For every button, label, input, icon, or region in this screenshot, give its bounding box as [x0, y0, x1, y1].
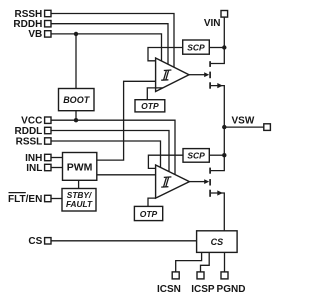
svg-text:PGND: PGND: [217, 284, 246, 295]
wire BOOT to VCC: [75, 111, 77, 121]
wire CS to PGND: [224, 252, 226, 272]
pin RSSH: [15, 9, 51, 20]
block SCP high-side: [183, 40, 210, 54]
junction VB/BOOT: [74, 32, 78, 36]
svg-text:SCP: SCP: [187, 43, 205, 53]
svg-text:VB: VB: [28, 29, 42, 40]
pin RDDL: [15, 126, 51, 137]
svg-text:SCP: SCP: [187, 151, 205, 161]
driver symbol U1: [161, 70, 171, 80]
pin INH: [25, 153, 51, 164]
svg-text:VSW: VSW: [232, 116, 255, 127]
svg-text:RDDL: RDDL: [15, 126, 43, 137]
wire OTP to high-side driver: [147, 88, 163, 100]
svg-text:FLT/EN: FLT/EN: [8, 194, 42, 205]
wire CS pin to CS block: [51, 240, 196, 242]
svg-text:VIN: VIN: [204, 18, 221, 29]
block BOOT: [59, 89, 95, 111]
wire RSSH to high-side driver: [51, 14, 174, 68]
pin RDDH: [13, 19, 51, 30]
svg-text:BOOT: BOOT: [63, 95, 91, 105]
svg-text:FAULT: FAULT: [66, 199, 93, 209]
wire INH to PWM: [51, 157, 62, 159]
block STBY/FAULT: [62, 189, 96, 212]
op-amp U1 high-side gate driver: [156, 58, 189, 92]
pin ICSP: [191, 272, 215, 295]
op-amp U2 low-side gate driver: [156, 165, 190, 198]
junction SCP/VIN: [222, 45, 226, 49]
block OTP high-side: [135, 100, 165, 112]
pin VCC: [21, 116, 51, 127]
pin FLT/EN: [8, 193, 51, 205]
wire SCP to VSW rail: [209, 154, 224, 156]
arrow Q1 gate: [204, 72, 209, 77]
wire PWM to low-side driver: [97, 174, 156, 176]
wire Q1 source to VSW: [211, 86, 224, 128]
wire Q2 source to CS: [211, 193, 224, 231]
svg-text:RSSL: RSSL: [16, 136, 43, 147]
wire PWM to STBY/FAULT: [78, 180, 80, 188]
wire SCP to high-side driver: [148, 48, 183, 61]
wire U1 to Q1 gate: [189, 74, 205, 76]
svg-text:OTP: OTP: [140, 209, 158, 219]
block CS current sense: [197, 231, 238, 253]
net VSW rail to Q2 drain: [211, 127, 225, 171]
arrow Q2 source: [217, 190, 223, 195]
arrow Q1 source: [217, 83, 223, 88]
pin CS: [28, 236, 51, 247]
junction VSW: [222, 125, 226, 129]
wire VB to BOOT: [75, 34, 77, 89]
svg-text:INL: INL: [26, 163, 42, 174]
pin VIN: [204, 11, 228, 30]
wire SCP to VIN rail: [209, 47, 224, 49]
svg-text:ICSN: ICSN: [157, 284, 181, 295]
svg-text:PWM: PWM: [67, 162, 93, 174]
wire VB to high-side driver: [51, 34, 161, 61]
net VIN rail to Q1 drain: [211, 17, 225, 63]
pin INL: [26, 163, 51, 174]
pin VB: [28, 29, 51, 40]
pin PGND: [217, 272, 246, 295]
wire RSSL to low-side driver: [51, 141, 160, 167]
wire PWM to high-side driver: [97, 81, 156, 160]
junction BOOT/VCC: [74, 118, 78, 122]
junction SCP/VSW: [222, 153, 226, 157]
wire VSW: [224, 126, 263, 128]
wire INL to PWM: [51, 167, 62, 169]
wire RDDL to low-side driver: [51, 131, 169, 172]
wire OTP to low-side driver: [148, 198, 156, 206]
wire U2 to Q2 gate: [189, 181, 205, 183]
svg-text:OTP: OTP: [141, 101, 159, 111]
pin RSSL: [16, 136, 51, 147]
wire RDDH to high-side driver: [51, 24, 168, 64]
arrow Q2 gate: [204, 179, 209, 184]
pin ICSN: [157, 272, 181, 295]
block OTP low-side: [134, 206, 162, 220]
driver symbol U2: [161, 177, 171, 187]
block SCP low-side: [183, 149, 209, 163]
svg-text:ICSP: ICSP: [191, 284, 215, 295]
wire VCC to low-side driver: [51, 120, 175, 174]
pin VSW: [232, 116, 271, 131]
wire FLT/EN to STBY/FAULT: [51, 198, 62, 200]
wire CS to ICSN: [176, 252, 202, 272]
wire CS to ICSP: [201, 252, 210, 272]
transistor Q2 low-side MOSFET: [209, 168, 211, 197]
transistor Q1 high-side MOSFET: [209, 61, 211, 88]
svg-text:CS: CS: [211, 237, 224, 247]
svg-text:CS: CS: [28, 236, 42, 247]
wire SCP to low-side driver: [148, 155, 183, 168]
block PWM: [63, 153, 97, 181]
